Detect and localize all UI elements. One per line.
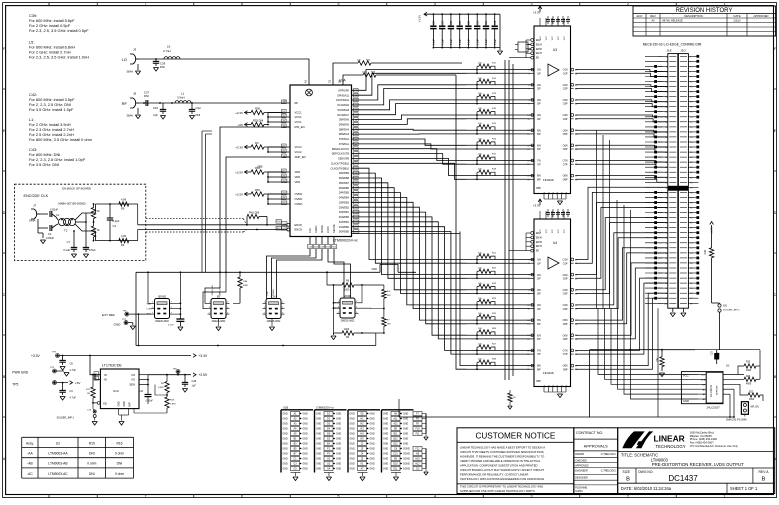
node small header: [515, 42, 531, 52]
svg-text:DATE: 6/02/2010 11:24:34a: DATE: 6/02/2010 11:24:34a: [621, 486, 672, 491]
svg-text:GND: GND: [383, 434, 388, 436]
svg-text:O6N: O6N: [563, 334, 568, 337]
svg-text:8.2pF: 8.2pF: [113, 219, 120, 223]
contract approvals block: [574, 428, 618, 494]
svg-text:EN: EN: [536, 58, 540, 60]
resistor R6 1000: [334, 280, 384, 292]
svg-text:1K: 1K: [97, 228, 100, 232]
svg-text:O1N: O1N: [563, 259, 568, 262]
op-amp U10 LT1763CDE: [94, 363, 139, 408]
svg-text:3: 3: [152, 307, 153, 309]
svg-text:I6P: I6P: [537, 338, 541, 341]
svg-text:IN: IN: [104, 378, 107, 382]
svg-text:57: 57: [690, 197, 692, 199]
svg-text:J7: J7: [33, 204, 37, 208]
svg-text:GND: GND: [336, 434, 341, 436]
svg-text:EN56: EN56: [536, 49, 542, 51]
svg-text:GND: GND: [124, 401, 126, 406]
svg-text:D7P/DA2: D7P/DA2: [339, 138, 350, 141]
svg-text:DESCRIPTION: DESCRIPTION: [684, 14, 702, 18]
svg-text:+5V: +5V: [238, 123, 243, 127]
wire regulator input: [90, 356, 100, 380]
svg-text:GND: GND: [383, 449, 388, 451]
svg-text:GND: GND: [350, 469, 355, 471]
revision history table: [633, 6, 776, 36]
svg-text:2.7nH: 2.7nH: [163, 49, 170, 53]
svg-text:C48: C48: [192, 380, 197, 383]
wire U2A bottom pin drops: [267, 249, 351, 299]
svg-text:MABA-007159-000000: MABA-007159-000000: [58, 202, 86, 206]
resistor R25: [695, 350, 760, 375]
svg-text:GND: GND: [303, 464, 308, 466]
svg-text:C4: C4: [113, 224, 117, 228]
svg-text:I4P: I4P: [537, 118, 541, 121]
svg-text:REVISION HISTORY: REVISION HISTORY: [676, 8, 733, 14]
U2A right pin labels: [331, 89, 350, 233]
svg-text:I6N: I6N: [537, 334, 541, 337]
resistor R50 4990: [233, 271, 249, 303]
capacitor C27: [712, 350, 721, 364]
svg-text:I3P: I3P: [537, 293, 541, 296]
svg-text:+3.3V: +3.3V: [533, 11, 541, 15]
svg-text:Assy.: Assy.: [26, 441, 34, 445]
resistor R3 +3.3V VCC2: [235, 141, 283, 153]
svg-text:GND: GND: [303, 434, 308, 436]
resistor R11 499: [382, 285, 392, 317]
svg-text:C42: C42: [196, 106, 202, 110]
svg-text:GND: GND: [303, 459, 308, 461]
capacitor C52 0.1uF: [168, 317, 184, 331]
title block with logo: [618, 428, 775, 494]
power rail +3.3V TP3: [31, 351, 208, 358]
svg-text:SMA: SMA: [127, 114, 134, 118]
svg-text:4.7uF: 4.7uF: [70, 369, 77, 372]
test point TP1 EXT REF: [102, 310, 151, 345]
svg-text:9: 9: [690, 77, 691, 79]
svg-text:I2N: I2N: [537, 274, 541, 277]
U2A left pin labels: [282, 100, 306, 232]
wire stubs connector misc rows: [645, 56, 663, 303]
svg-text:I7N: I7N: [537, 160, 541, 163]
svg-text:APPROVALS: APPROVALS: [584, 443, 608, 448]
svg-text:61: 61: [690, 208, 692, 210]
svg-text:GND: GND: [403, 424, 408, 426]
wire RF to U2A pin G1: [139, 99, 290, 104]
svg-text:GND: GND: [336, 469, 341, 471]
svg-text:0.1uF: 0.1uF: [495, 39, 497, 45]
svg-text:24LC02CM: 24LC02CM: [710, 385, 713, 397]
svg-text:CUSTOMER NOTICE: CUSTOMER NOTICE: [475, 432, 555, 441]
svg-text:5: 5: [338, 2, 340, 6]
svg-text:2: 2: [627, 2, 629, 6]
svg-text:U10: U10: [113, 389, 119, 393]
svg-text:0 ohm: 0 ohm: [115, 472, 124, 476]
resistor R26 100 clkout: [357, 60, 371, 66]
svg-text:3: 3: [531, 2, 533, 6]
svg-text:O5P: O5P: [563, 133, 568, 136]
connector J7 SMA encode: [29, 204, 46, 244]
capacitor row above U4 and +3.3V: [533, 199, 570, 217]
svg-text:GND: GND: [383, 439, 388, 441]
svg-text:I7P: I7P: [537, 163, 541, 166]
svg-text:U2: U2: [56, 441, 60, 445]
svg-text:I1P: I1P: [537, 72, 541, 75]
svg-text:WP_EN: WP_EN: [751, 407, 760, 409]
svg-text:TP5: TP5: [12, 383, 18, 387]
svg-text:E10: E10: [393, 464, 398, 466]
svg-text:FIN1108: FIN1108: [543, 178, 554, 182]
svg-text:5: 5: [338, 312, 339, 314]
wire long vertical nets: [597, 130, 631, 308]
svg-text:R5: R5: [121, 207, 125, 211]
svg-text:O2P: O2P: [563, 88, 568, 91]
svg-text:GND: GND: [316, 459, 321, 461]
svg-text:D6P/DB9: D6P/DB9: [339, 172, 350, 175]
svg-text:D0P/DB0: D0P/DB0: [339, 231, 350, 234]
wire JP1 right rail: [173, 271, 181, 316]
svg-text:GND: GND: [350, 429, 355, 431]
svg-text:LON: LON: [147, 309, 152, 311]
svg-text:79: 79: [690, 253, 692, 255]
jumper JP4 mode: [337, 295, 359, 323]
svg-text:C7: C7: [67, 240, 71, 244]
svg-text:TECHNOLOGY: TECHNOLOGY: [656, 444, 686, 449]
dashed box ON BACK OF BOARD encode clk: [15, 184, 146, 260]
connector J1 edge MEC8-150: [643, 42, 702, 308]
svg-text:O6P: O6P: [563, 148, 568, 151]
svg-text:D8N/DA3: D8N/DA3: [339, 133, 350, 136]
svg-text:GND: GND: [303, 444, 308, 446]
svg-text:C2: C2: [48, 232, 52, 236]
svg-text:VDD: VDD: [372, 267, 378, 271]
svg-text:3: 3: [690, 61, 691, 63]
svg-text:1uF: 1uF: [192, 385, 197, 388]
svg-text:SOLDER_JMP-1: SOLDER_JMP-1: [723, 310, 740, 312]
svg-text:+3.3V: +3.3V: [418, 15, 422, 23]
svg-text:DESIGNER: DESIGNER: [575, 477, 588, 480]
svg-text:1: 1: [209, 302, 210, 304]
wire bus connector to EEPROM pins: [598, 308, 698, 417]
svg-text:94: 94: [665, 288, 667, 290]
svg-text:GND: GND: [370, 424, 375, 426]
svg-text:DNI: DNI: [144, 94, 149, 98]
svg-text:D11P/DA10: D11P/DA10: [336, 99, 349, 102]
svg-text:0.1uF: 0.1uF: [460, 39, 462, 45]
svg-text:GND: GND: [336, 464, 341, 466]
svg-text:DATE: DATE: [734, 14, 741, 18]
svg-text:1000: 1000: [344, 288, 350, 291]
svg-text:LO: LO: [122, 57, 127, 62]
svg-text:THIS CIRCUIT IS PROPRIETARY TO: THIS CIRCUIT IS PROPRIETARY TO LINEAR TE…: [460, 485, 543, 489]
svg-text:VCC: VCC: [546, 35, 548, 40]
svg-text:0 ohm: 0 ohm: [115, 452, 124, 456]
svg-text:GND: GND: [350, 444, 355, 446]
svg-text:EN34: EN34: [536, 44, 542, 46]
svg-text:49: 49: [690, 177, 692, 179]
connector J1 solder squares: [654, 55, 699, 300]
svg-text:O8N: O8N: [563, 175, 568, 178]
svg-text:U2B: U2B: [283, 406, 288, 410]
svg-text:I7N: I7N: [537, 350, 541, 353]
svg-text:0.1uF: 0.1uF: [168, 325, 174, 327]
svg-text:GND: GND: [383, 429, 388, 431]
svg-text:PRE-DISTORTION RECEIVER, LVDS: PRE-DISTORTION RECEIVER, LVDS OUTPUT: [652, 462, 744, 467]
svg-text:I1N: I1N: [537, 69, 541, 72]
svg-text:3: 3: [264, 307, 265, 309]
svg-text:WP: WP: [702, 384, 706, 386]
svg-text:C26: C26: [451, 20, 453, 25]
svg-text:APPROVED: APPROVED: [575, 465, 589, 468]
svg-text:PERFORMANCE OR RELIABILITY. C: PERFORMANCE OR RELIABILITY. CONTACT LINE…: [460, 473, 528, 477]
capacitor C41 8.2pF: [107, 204, 120, 241]
svg-text:6: 6: [666, 66, 667, 68]
svg-text:VDD: VDD: [295, 180, 301, 184]
svg-text:J1O: J1O: [680, 49, 686, 53]
svg-text:GND: GND: [350, 459, 355, 461]
svg-text:VCC2: VCC2: [295, 145, 303, 149]
svg-text:OEN/OFB: OEN/OFB: [338, 158, 349, 161]
resistor R55 encode upper: [91, 204, 100, 222]
svg-text:LTM9003-AA: LTM9003-AA: [48, 452, 68, 456]
svg-text:41: 41: [690, 157, 692, 159]
svg-text:C24: C24: [434, 20, 436, 25]
svg-text:GND: GND: [283, 424, 288, 426]
svg-text:CLKOUTP/DB11: CLKOUTP/DB11: [331, 162, 350, 165]
svg-text:C25: C25: [442, 20, 444, 25]
svg-text:69: 69: [690, 228, 692, 230]
svg-text:81: 81: [690, 258, 692, 260]
svg-text:GND: GND: [383, 444, 388, 446]
svg-text:1K: 1K: [97, 209, 100, 213]
svg-text:DRAWN: DRAWN: [575, 453, 584, 456]
svg-text:+2.5V: +2.5V: [235, 170, 243, 174]
svg-text:2WE2S-0602: 2WE2S-0602: [341, 320, 355, 322]
wire LO to U2A pin A2: [139, 58, 309, 85]
svg-text:25: 25: [690, 117, 692, 119]
svg-text:DEN/CLKOUTA: DEN/CLKOUTA: [332, 148, 350, 151]
svg-text:GND: GND: [316, 449, 321, 451]
ground pin table U2B: [281, 406, 414, 481]
svg-text:MIX_EN: MIX_EN: [295, 125, 305, 129]
svg-text:R53 DNI: R53 DNI: [253, 118, 264, 122]
svg-text:CIRCUIT BOARD LAYOUT MAY SIGNI: CIRCUIT BOARD LAYOUT MAY SIGNIFICANTLY A…: [460, 468, 544, 472]
svg-text:2MM-2X1-PS-2MM: 2MM-2X1-PS-2MM: [726, 418, 746, 421]
svg-text:O5P: O5P: [563, 323, 568, 326]
svg-text:I8N: I8N: [537, 365, 541, 368]
U4 bottom pins: [509, 211, 571, 387]
svg-text:GND: GND: [336, 419, 341, 421]
svg-text:GND: GND: [350, 434, 355, 436]
svg-text:HOWEVER, IT REMAINS THE CUSTOM: HOWEVER, IT REMAINS THE CUSTOMER'S RESPO…: [460, 454, 544, 458]
svg-text:99: 99: [690, 303, 692, 305]
svg-text:O8P: O8P: [563, 368, 568, 371]
svg-text:OGND: OGND: [403, 449, 410, 451]
svg-text:7: 7: [690, 71, 691, 73]
svg-text:VCC: VCC: [558, 228, 560, 233]
svg-text:GND: GND: [350, 419, 355, 421]
svg-text:VCC: VCC: [564, 228, 566, 233]
svg-text:GND: GND: [370, 419, 375, 421]
svg-text:GND: GND: [283, 464, 288, 466]
svg-text:-AB: -AB: [27, 462, 33, 466]
svg-text:For 2.3, 2.5, 3.5 GHz: install: For 2.3, 2.5, 3.5 GHz: install 1.0nH: [29, 55, 89, 60]
svg-text:C: C: [774, 293, 777, 297]
svg-text:53: 53: [690, 187, 692, 189]
svg-text:H12: H12: [415, 464, 420, 466]
svg-text:+3.3V: +3.3V: [235, 145, 243, 149]
svg-text:AMP_EN: AMP_EN: [295, 155, 306, 159]
svg-text:GND: GND: [403, 439, 408, 441]
svg-text:OVDD: OVDD: [295, 197, 303, 201]
svg-text:+3.3V: +3.3V: [533, 204, 541, 208]
svg-text:2WE2S-0602: 2WE2S-0602: [155, 321, 169, 323]
svg-text:VDKS_EN: VDKS_EN: [212, 285, 214, 296]
svg-text:O7P: O7P: [563, 353, 568, 356]
svg-text:24: 24: [665, 112, 667, 114]
svg-text:0 ohm: 0 ohm: [87, 462, 96, 466]
svg-text:GND: GND: [383, 414, 388, 416]
svg-text:4990: 4990: [746, 384, 752, 386]
svg-text:LTM9002GV-xx: LTM9002GV-xx: [316, 406, 335, 410]
svg-text:VCC1: VCC1: [295, 120, 303, 124]
svg-text:7: 7: [145, 2, 147, 6]
svg-text:0.05uF: 0.05uF: [50, 208, 58, 212]
resistor R9 6.04K: [158, 375, 169, 397]
svg-text:GND: GND: [303, 449, 308, 451]
power +3.3V with resistor R30: [704, 222, 714, 304]
svg-text:GND: GND: [403, 419, 408, 421]
svg-text:ENCN: ENCN: [295, 228, 303, 232]
svg-text:VCC1: VCC1: [295, 115, 303, 119]
resistor R56 +3.3V VCC1: [235, 106, 283, 123]
svg-text:SOLDER_JMP-1: SOLDER_JMP-1: [57, 418, 75, 420]
svg-text:85: 85: [690, 268, 692, 270]
svg-text:50M: 50M: [243, 281, 247, 283]
svg-text:4.99: 4.99: [121, 234, 127, 238]
svg-text:D7N/DA1: D7N/DA1: [339, 143, 350, 146]
svg-text:CONTRACT NO.: CONTRACT NO.: [576, 431, 603, 435]
svg-text:DEP/CLKOUTB: DEP/CLKOUTB: [332, 153, 350, 156]
svg-text:A2: A2: [304, 79, 308, 83]
connector J1 bottom ground stubs: [670, 308, 686, 316]
svg-text:D8P/DA4: D8P/DA4: [339, 128, 350, 131]
svg-text:+3.3V: +3.3V: [199, 354, 209, 358]
resistor R27: [723, 384, 763, 401]
svg-text:C: C: [3, 293, 6, 297]
svg-text:GND: GND: [303, 454, 308, 456]
svg-text:D: D: [774, 211, 777, 215]
svg-text:GND: GND: [316, 424, 321, 426]
transformer T2: [56, 213, 95, 233]
svg-text:SENSE: SENSE: [158, 295, 167, 298]
svg-text:70: 70: [665, 228, 667, 230]
resistor R12 100K: [86, 374, 97, 404]
svg-text:GND: GND: [283, 434, 288, 436]
svg-text:J5: J5: [133, 92, 137, 96]
svg-text:LTM9002GV-xx: LTM9002GV-xx: [333, 239, 358, 243]
svg-text:GND: GND: [350, 464, 355, 466]
svg-text:CLKOUTN/DB10: CLKOUTN/DB10: [331, 167, 350, 170]
svg-text:6: 6: [356, 312, 357, 314]
svg-text:O4P: O4P: [563, 118, 568, 121]
resistor R4 encode: [119, 234, 129, 247]
svg-text:SUPPLIED FOR USE WITH LINEAR T: SUPPLIED FOR USE WITH LINEAR TECHNOLOGY …: [460, 489, 535, 493]
svg-text:64: 64: [665, 213, 667, 215]
svg-text:4: 4: [434, 2, 436, 6]
svg-text:PWR GND: PWR GND: [12, 370, 29, 374]
wire encode top bus: [86, 203, 138, 223]
op-amp U2A LTM9002 module: [290, 79, 358, 243]
svg-text:C.TRELOGIC: C.TRELOGIC: [601, 453, 616, 456]
svg-text:59: 59: [690, 203, 692, 205]
svg-text:89: 89: [690, 278, 692, 280]
svg-text:O2N: O2N: [563, 274, 568, 277]
svg-text:GND: GND: [383, 454, 388, 456]
svg-text:21: 21: [690, 107, 692, 109]
jumper JP5 WP_EN: [726, 402, 759, 422]
svg-text:6: 6: [171, 313, 172, 315]
svg-text:EEPROM: EEPROM: [717, 385, 719, 395]
wire EEPROM A pins common: [658, 389, 735, 418]
svg-text:O1N: O1N: [563, 69, 568, 72]
svg-text:OGND: OGND: [403, 469, 410, 471]
svg-text:T2: T2: [64, 229, 68, 233]
svg-text:17: 17: [690, 97, 692, 99]
svg-text:C31: C31: [486, 20, 488, 25]
wire AMP_EN stub: [226, 157, 290, 272]
svg-text:Fax: (408) 434-0507: Fax: (408) 434-0507: [690, 440, 714, 444]
assembly option table: [22, 437, 134, 478]
svg-text:O3N: O3N: [563, 99, 568, 102]
svg-text:OPN/DA11: OPN/DA11: [337, 94, 350, 97]
svg-text:SDA: SDA: [701, 378, 706, 381]
capacitor C44: [139, 385, 167, 405]
svg-text:DWG NO.: DWG NO.: [638, 470, 653, 474]
svg-text:O3P: O3P: [563, 293, 568, 296]
svg-text:GND: GND: [316, 454, 321, 456]
svg-text:77: 77: [690, 248, 692, 250]
wire EEPROM power loop: [399, 349, 695, 417]
svg-text:R4: R4: [121, 243, 125, 247]
svg-text:GND: GND: [683, 399, 689, 403]
svg-text:I3N: I3N: [537, 289, 541, 292]
svg-text:5: 5: [264, 313, 265, 315]
svg-text:5: 5: [690, 66, 691, 68]
svg-text:O2P: O2P: [563, 277, 568, 280]
svg-text:I2P: I2P: [537, 88, 541, 91]
svg-text:+3.3V: +3.3V: [235, 111, 243, 115]
svg-text:O4N: O4N: [563, 114, 568, 117]
svg-text:U1: U1: [726, 364, 730, 368]
svg-text:I1N: I1N: [537, 259, 541, 262]
svg-text:GND: GND: [316, 434, 321, 436]
svg-text:GND: GND: [119, 401, 121, 406]
svg-text:0.1uF: 0.1uF: [63, 248, 70, 252]
capacitor C42: [189, 103, 201, 119]
svg-text:15: 15: [690, 92, 692, 94]
svg-text:GND: GND: [303, 469, 308, 471]
svg-text:REV: REV: [650, 14, 656, 18]
test point TP8: [173, 369, 181, 375]
svg-text:VBB: VBB: [536, 188, 541, 190]
svg-text:+2.5V: +2.5V: [199, 373, 209, 377]
svg-text:C44: C44: [139, 390, 144, 393]
svg-text:1: 1: [152, 302, 153, 304]
svg-text:O5N: O5N: [563, 319, 568, 322]
resistor R5 encode: [119, 198, 129, 211]
svg-text:VCC1: VCC1: [295, 111, 303, 115]
svg-text:I3N: I3N: [537, 99, 541, 102]
